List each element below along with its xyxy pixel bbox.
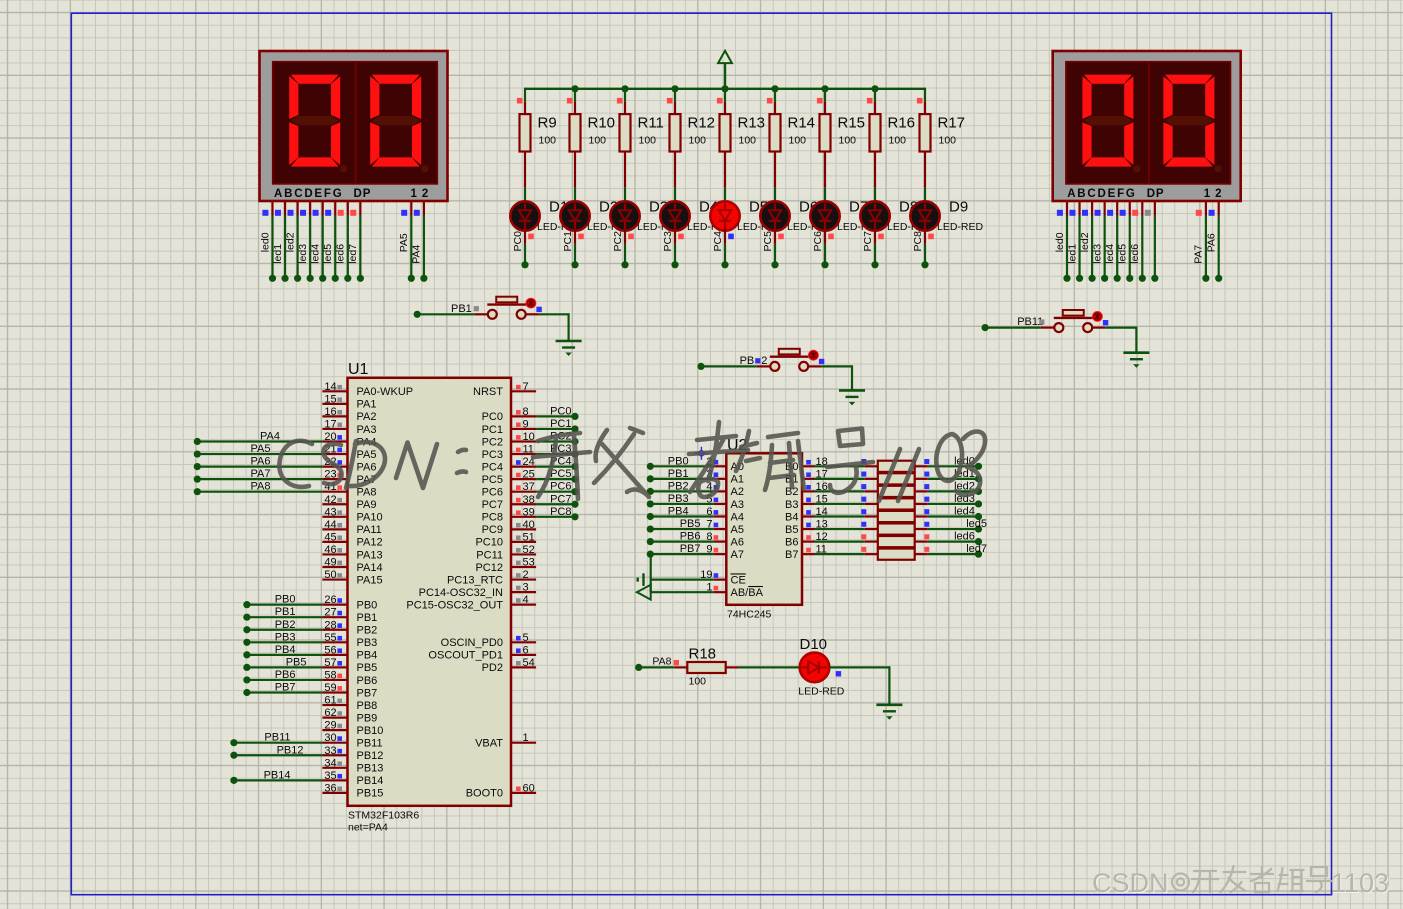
wire PC7 from U1 bbox=[536, 503, 575, 505]
ground (D10) bbox=[876, 703, 902, 706]
svg-text:27: 27 bbox=[324, 607, 336, 619]
wire R9 to D1 bbox=[524, 188, 526, 202]
U2 pin 16 (B2) bbox=[802, 490, 815, 492]
svg-text:PA8: PA8 bbox=[251, 481, 271, 493]
wire R15 to D7 bbox=[824, 188, 826, 202]
wire D5 to PC4 node bbox=[724, 229, 726, 244]
wire resistor pack to led1 bbox=[915, 478, 928, 480]
LED D5 (LED-RED) lit bbox=[710, 201, 739, 230]
wire R12 to D4 bbox=[674, 188, 676, 202]
junction PC1 bbox=[571, 425, 578, 432]
LED D1 (LED-RED) bbox=[510, 201, 539, 230]
U1 pin 35 (PB14) bbox=[322, 779, 347, 781]
watermark bottom right (CSDN @...) bbox=[1092, 866, 1389, 898]
svg-text:PC1: PC1 bbox=[550, 418, 571, 430]
ground (PB13 net left) bbox=[556, 340, 582, 343]
svg-text:led7: led7 bbox=[347, 244, 359, 264]
svg-text:D10: D10 bbox=[800, 636, 828, 653]
node PC1 bbox=[571, 261, 578, 268]
wire PB6 to U2 pin A6 bbox=[647, 538, 654, 545]
U2 pin 19 (CE) bbox=[714, 579, 727, 581]
MCU U1 STM32F103R6 bbox=[348, 378, 512, 806]
wire PA7 to U1 bbox=[194, 476, 201, 483]
svg-text:51: 51 bbox=[523, 531, 535, 543]
svg-text:53: 53 bbox=[523, 557, 535, 569]
LED D4 (LED-RED) bbox=[660, 201, 689, 230]
U1 pin 42 (PA9) bbox=[322, 503, 347, 505]
svg-text:PB10: PB10 bbox=[357, 725, 384, 737]
wire D7 to PC6 node bbox=[824, 229, 826, 244]
power arrow terminal (U2 AB/BA, pointing left) bbox=[637, 585, 651, 600]
svg-text:PC3: PC3 bbox=[662, 231, 674, 252]
svg-text:led6: led6 bbox=[954, 531, 975, 543]
svg-text:PC6: PC6 bbox=[550, 481, 571, 493]
svg-text:led0: led0 bbox=[1054, 232, 1066, 252]
LED D9 (LED-RED) bbox=[910, 201, 939, 230]
svg-text:PC4: PC4 bbox=[482, 461, 503, 473]
wire PB3 to U1 bbox=[243, 639, 250, 646]
svg-text:100: 100 bbox=[739, 135, 757, 147]
svg-text:1 2: 1 2 bbox=[1204, 188, 1223, 200]
svg-text:led6: led6 bbox=[335, 244, 347, 264]
U2 pin 6 (A4) bbox=[714, 515, 727, 517]
junction PC7 bbox=[571, 501, 578, 508]
svg-text:PA8: PA8 bbox=[357, 487, 377, 499]
svg-text:100: 100 bbox=[589, 135, 607, 147]
U1 pin 38 (PC7) bbox=[511, 503, 536, 505]
svg-text:R15: R15 bbox=[838, 114, 866, 131]
U1 pin 6 (OSCOUT_PD1) bbox=[511, 654, 536, 656]
resistor R9 (100) bbox=[524, 102, 526, 115]
svg-text:2: 2 bbox=[523, 569, 529, 581]
svg-text:60: 60 bbox=[523, 782, 535, 794]
node led5 bbox=[975, 525, 982, 532]
svg-text:PC6: PC6 bbox=[812, 231, 824, 252]
svg-text:36: 36 bbox=[324, 782, 336, 794]
svg-text:PC3: PC3 bbox=[482, 449, 503, 461]
svg-text:PA15: PA15 bbox=[357, 574, 383, 586]
U1 pin 22 (PA6) bbox=[322, 466, 347, 468]
U1 pin 5 (OSCIN_PD0) bbox=[511, 641, 536, 643]
svg-text:50: 50 bbox=[324, 569, 336, 581]
svg-text:PB12: PB12 bbox=[357, 750, 384, 762]
svg-text:28: 28 bbox=[324, 619, 336, 631]
U1 pin 11 (PC3) bbox=[511, 453, 536, 455]
wire resistor pack to led2 bbox=[915, 490, 928, 492]
U1 pin 45 (PA12) bbox=[322, 541, 347, 543]
U1 pin 9 (PC1) bbox=[511, 428, 536, 430]
svg-text:NRST: NRST bbox=[473, 386, 503, 398]
U1 pin 2 (PC13_RTC) bbox=[511, 578, 536, 580]
svg-text:PA10: PA10 bbox=[357, 512, 383, 524]
svg-text:R12: R12 bbox=[688, 114, 716, 131]
wire D1 to PC0 node bbox=[524, 229, 526, 244]
svg-text:4: 4 bbox=[523, 594, 529, 606]
junction VCC rail / R14 bbox=[771, 85, 778, 92]
wire R14 to D6 bbox=[774, 188, 776, 202]
node PC8 bbox=[921, 261, 928, 268]
svg-text:PC0: PC0 bbox=[512, 231, 524, 252]
svg-text:PC5: PC5 bbox=[550, 468, 571, 480]
U1 pin 40 (PC9) bbox=[511, 528, 536, 530]
svg-text:15: 15 bbox=[324, 393, 336, 405]
LED D2 (LED-RED) bbox=[560, 201, 589, 230]
wire led5 - right display pin 6 bbox=[1129, 202, 1131, 216]
svg-text:56: 56 bbox=[324, 644, 336, 656]
svg-text:PA5: PA5 bbox=[398, 233, 410, 252]
svg-text:DP: DP bbox=[354, 188, 372, 200]
wire PC0 from U1 bbox=[536, 415, 575, 417]
svg-text:DP: DP bbox=[1147, 188, 1165, 200]
U1 pin 27 (PB1) bbox=[322, 616, 347, 618]
wire PB11 to U1 bbox=[230, 739, 237, 746]
svg-text:led1: led1 bbox=[1066, 244, 1078, 264]
svg-text:led7: led7 bbox=[966, 543, 987, 555]
svg-text:PB5: PB5 bbox=[286, 656, 307, 668]
ground (U2 CE, rotated) bbox=[642, 573, 644, 586]
wire CE and AB/BA to ground bbox=[650, 554, 652, 592]
wire U2 pin B1 to resistor pack bbox=[815, 478, 865, 480]
svg-text:R17: R17 bbox=[938, 114, 966, 131]
resistor R10 (100) bbox=[574, 102, 576, 115]
wire D4 to PC3 node bbox=[674, 229, 676, 244]
svg-text:PA3: PA3 bbox=[357, 424, 377, 436]
wire led0 - left display pin A bbox=[271, 202, 273, 216]
wire PA8 to R18 bbox=[639, 666, 675, 668]
svg-text:R9: R9 bbox=[538, 114, 557, 131]
U2 pin 18 (B0) bbox=[802, 465, 815, 467]
svg-text:5: 5 bbox=[523, 632, 529, 644]
svg-text:7: 7 bbox=[523, 381, 529, 393]
U1 pin 52 (PC11) bbox=[511, 553, 536, 555]
svg-text:30: 30 bbox=[324, 732, 336, 744]
svg-text:100: 100 bbox=[889, 135, 907, 147]
svg-text:PC13_RTC: PC13_RTC bbox=[447, 574, 503, 586]
svg-text:PD2: PD2 bbox=[482, 662, 503, 674]
svg-text:R18: R18 bbox=[689, 646, 717, 663]
svg-text:PB0: PB0 bbox=[357, 599, 378, 611]
U1 pin 17 (PA3) bbox=[322, 428, 347, 430]
svg-text:PB1: PB1 bbox=[357, 612, 378, 624]
resistor R16 (100) bbox=[874, 102, 876, 115]
U1 pin 21 (PA5) bbox=[322, 453, 347, 455]
U1 pin 30 (PB11) bbox=[322, 742, 347, 744]
wire led4 - right display pin 5 bbox=[1116, 202, 1118, 216]
wire R17 to D9 bbox=[924, 188, 926, 202]
U1 pin 29 (PB10) bbox=[322, 729, 347, 731]
svg-text:1 2: 1 2 bbox=[411, 188, 430, 200]
svg-text:ABCDEFG: ABCDEFG bbox=[274, 188, 343, 200]
wire led3 - left display pin D bbox=[309, 202, 311, 216]
svg-text:PB3: PB3 bbox=[668, 493, 689, 505]
resistor R11 (100) bbox=[624, 102, 626, 115]
svg-text:PA6: PA6 bbox=[251, 456, 271, 468]
svg-text:PB: PB bbox=[740, 355, 755, 367]
7-segment dual display left (nets led0-led7 / PA5 PA4) bbox=[260, 51, 448, 201]
wire PC6 from U1 bbox=[536, 491, 575, 493]
origin marker (blue cross) bbox=[695, 447, 708, 460]
resistor pack element 3 bbox=[878, 486, 915, 497]
svg-text:led4: led4 bbox=[310, 244, 322, 264]
U1 pin 43 (PA10) bbox=[322, 516, 347, 518]
svg-text:35: 35 bbox=[324, 770, 336, 782]
U1 pin 44 (PA11) bbox=[322, 528, 347, 530]
svg-text:PC7: PC7 bbox=[482, 499, 503, 511]
node PC6 bbox=[821, 261, 828, 268]
svg-text:PC9: PC9 bbox=[482, 524, 503, 536]
svg-text:A2: A2 bbox=[731, 486, 744, 498]
svg-text:BOOT0: BOOT0 bbox=[466, 788, 503, 800]
svg-text:R13: R13 bbox=[738, 114, 766, 131]
wire PB7 to U2 pin A7 bbox=[647, 551, 654, 558]
U1 pin 10 (PC2) bbox=[511, 440, 536, 442]
svg-text:74HC245: 74HC245 bbox=[727, 609, 772, 621]
svg-text:43: 43 bbox=[324, 506, 336, 518]
wire D8 to PC7 node bbox=[874, 229, 876, 244]
wire D10 to ground bbox=[829, 666, 889, 668]
wire led4 - left display pin E bbox=[322, 202, 324, 216]
U1 pin 36 (PB15) bbox=[322, 792, 347, 794]
svg-text:23: 23 bbox=[324, 469, 336, 481]
svg-text:PB5: PB5 bbox=[357, 662, 378, 674]
U1 pin 25 (PC5) bbox=[511, 478, 536, 480]
svg-text:PB4: PB4 bbox=[357, 650, 378, 662]
resistor pack element 5 bbox=[878, 511, 915, 522]
svg-text:A3: A3 bbox=[731, 499, 744, 511]
svg-text:PC5: PC5 bbox=[482, 474, 503, 486]
svg-text:PC10: PC10 bbox=[475, 537, 503, 549]
svg-text:PC8: PC8 bbox=[482, 512, 503, 524]
U1 pin 61 (PB8) bbox=[322, 704, 347, 706]
node PC5 bbox=[771, 261, 778, 268]
svg-text:led5: led5 bbox=[1117, 244, 1129, 264]
junction VCC rail / R10 bbox=[571, 85, 578, 92]
U1 pin 33 (PB12) bbox=[322, 754, 347, 756]
svg-text:PB3: PB3 bbox=[275, 631, 296, 643]
svg-text:B3: B3 bbox=[785, 499, 798, 511]
junction PC3 bbox=[571, 450, 578, 457]
LED D3 (LED-RED) bbox=[610, 201, 639, 230]
svg-text:PB5: PB5 bbox=[680, 518, 701, 530]
wire resistor pack to led7 bbox=[915, 553, 928, 555]
node PC2 bbox=[621, 261, 628, 268]
svg-text:B6: B6 bbox=[785, 536, 798, 548]
wire R16 to D8 bbox=[874, 188, 876, 202]
U1 pin 37 (PC6) bbox=[511, 491, 536, 493]
svg-text:PA11: PA11 bbox=[357, 524, 382, 536]
svg-text:100: 100 bbox=[689, 676, 707, 688]
svg-text:17: 17 bbox=[324, 418, 336, 430]
wire U2 pin B2 to resistor pack bbox=[815, 490, 865, 492]
resistor pack element 7 bbox=[878, 536, 915, 547]
svg-text:PC4: PC4 bbox=[712, 231, 724, 252]
wire U2 pin B6 to resistor pack bbox=[815, 540, 865, 542]
wire led2 - left display pin C bbox=[297, 202, 299, 216]
svg-text:44: 44 bbox=[324, 519, 336, 531]
wire resistor pack to led3 bbox=[915, 503, 928, 505]
push button (PB14 net right) bbox=[982, 324, 989, 331]
svg-text:100: 100 bbox=[689, 135, 707, 147]
svg-text:2: 2 bbox=[761, 355, 767, 367]
wire PB4 to U1 bbox=[243, 651, 250, 658]
LED D7 (LED-RED) bbox=[810, 201, 839, 230]
svg-text:PB4: PB4 bbox=[275, 644, 296, 656]
7-segment dual display right (nets led0-led6 / PA7 PA6) bbox=[1053, 51, 1241, 201]
svg-text:39: 39 bbox=[523, 506, 535, 518]
svg-text:25: 25 bbox=[523, 469, 535, 481]
U2 pin 14 (B4) bbox=[802, 515, 815, 517]
svg-text:A4: A4 bbox=[731, 511, 744, 523]
U1 pin 34 (PB13) bbox=[322, 767, 347, 769]
svg-text:PC8: PC8 bbox=[550, 506, 571, 518]
wire D3 to PC2 node bbox=[624, 229, 626, 244]
resistor R12 (100) bbox=[674, 102, 676, 115]
svg-text:PA4: PA4 bbox=[411, 245, 423, 264]
svg-text:PC6: PC6 bbox=[482, 487, 503, 499]
resistor pack element 1 bbox=[878, 461, 915, 472]
node PC0 bbox=[521, 261, 528, 268]
svg-text:54: 54 bbox=[523, 657, 535, 669]
wire U2 pin B7 to resistor pack bbox=[815, 553, 865, 555]
U1 pin 1 (VBAT) bbox=[511, 742, 536, 744]
svg-text:PC14-OSC32_IN: PC14-OSC32_IN bbox=[419, 587, 503, 599]
U1 pin 53 (PC12) bbox=[511, 566, 536, 568]
svg-text:A5: A5 bbox=[731, 524, 744, 536]
svg-text:PC1: PC1 bbox=[482, 424, 503, 436]
resistor R17 (100) bbox=[924, 102, 926, 115]
U1 pin 39 (PC8) bbox=[511, 516, 536, 518]
svg-text:57: 57 bbox=[324, 657, 336, 669]
wire led6 - right display pin 7 bbox=[1141, 202, 1143, 216]
resistor R18 (100) bbox=[675, 666, 688, 668]
U2 pin 12 (B6) bbox=[802, 540, 815, 542]
svg-text:B5: B5 bbox=[785, 524, 798, 536]
junction VCC rail / R15 bbox=[821, 85, 828, 92]
svg-text:PB2: PB2 bbox=[668, 480, 689, 492]
U1 pin 16 (PA2) bbox=[322, 415, 347, 417]
svg-text:led6: led6 bbox=[1129, 244, 1141, 264]
svg-text:PB9: PB9 bbox=[357, 712, 378, 724]
wire D6 to PC5 node bbox=[774, 229, 776, 244]
svg-text:OSCIN_PD0: OSCIN_PD0 bbox=[441, 637, 503, 649]
svg-text:11: 11 bbox=[523, 444, 534, 456]
svg-text:PB12: PB12 bbox=[277, 744, 304, 756]
resistor R13 (100) bbox=[724, 102, 726, 115]
push button (PB13 net left) bbox=[414, 311, 421, 318]
svg-text:PC2: PC2 bbox=[612, 231, 624, 252]
svg-text:PA8: PA8 bbox=[652, 656, 671, 668]
node PC3 bbox=[671, 261, 678, 268]
svg-text:led1: led1 bbox=[272, 244, 284, 264]
resistor pack element 8 bbox=[878, 549, 915, 560]
svg-text:led3: led3 bbox=[1091, 244, 1103, 264]
svg-text:ABCDEFG: ABCDEFG bbox=[1067, 188, 1136, 200]
node PC7 bbox=[871, 261, 878, 268]
svg-text:PA2: PA2 bbox=[357, 411, 377, 423]
wire resistor pack to led4 bbox=[915, 515, 928, 517]
svg-text:PC2: PC2 bbox=[482, 436, 503, 448]
svg-text:PA6: PA6 bbox=[357, 461, 377, 473]
svg-text:led2: led2 bbox=[284, 232, 296, 252]
svg-text:26: 26 bbox=[324, 594, 336, 606]
wire PA4 - left display pin 2 bbox=[423, 202, 425, 216]
svg-text:PB0: PB0 bbox=[275, 594, 296, 606]
svg-text:PA12: PA12 bbox=[357, 537, 383, 549]
U1 pin 60 (BOOT0) bbox=[511, 792, 536, 794]
U1 pin 49 (PA14) bbox=[322, 566, 347, 568]
U1 pin 62 (PB9) bbox=[322, 716, 347, 718]
svg-text:PC1: PC1 bbox=[562, 231, 574, 252]
push button (PB12 net middle) bbox=[697, 363, 704, 370]
svg-text:49: 49 bbox=[324, 557, 336, 569]
svg-text:PB1: PB1 bbox=[668, 468, 689, 480]
svg-text:R14: R14 bbox=[788, 114, 816, 131]
wire PB5 to U1 bbox=[243, 664, 250, 671]
node led0 bbox=[975, 463, 982, 470]
svg-text:led2: led2 bbox=[1079, 232, 1091, 252]
junction VCC rail / R11 bbox=[621, 85, 628, 92]
wire PB14 net right button to ground bbox=[1105, 327, 1136, 329]
svg-text:PC12: PC12 bbox=[475, 562, 503, 574]
junction VCC rail / R16 bbox=[871, 85, 878, 92]
wire D2 to PC1 node bbox=[574, 229, 576, 244]
svg-text:PB6: PB6 bbox=[357, 675, 378, 687]
U1 pin 51 (PC10) bbox=[511, 541, 536, 543]
svg-text:9: 9 bbox=[523, 418, 529, 430]
svg-text:14: 14 bbox=[324, 381, 336, 393]
wire PB12 to U1 bbox=[230, 752, 237, 759]
buffer U2 74HC245 bbox=[726, 453, 802, 605]
svg-text:PC5: PC5 bbox=[762, 231, 774, 252]
svg-text:B4: B4 bbox=[785, 511, 798, 523]
wire led2 - right display pin 3 bbox=[1091, 202, 1093, 216]
resistor pack element 4 bbox=[878, 498, 915, 509]
LED D6 (LED-RED) bbox=[760, 201, 789, 230]
svg-text:1: 1 bbox=[523, 732, 529, 744]
U2 pin 13 (B5) bbox=[802, 528, 815, 530]
svg-text:OSCOUT_PD1: OSCOUT_PD1 bbox=[428, 650, 503, 662]
svg-text:PB14: PB14 bbox=[357, 775, 384, 787]
svg-text:CSDN: CSDN bbox=[1092, 868, 1169, 898]
wire PA5 to U1 bbox=[194, 450, 201, 457]
svg-text:PB4: PB4 bbox=[668, 506, 689, 518]
U1 pin 4 (PC15-OSC32_OUT) bbox=[511, 604, 536, 606]
wire D9 to PC8 node bbox=[924, 229, 926, 244]
wire PB14 to U1 bbox=[230, 777, 237, 784]
svg-text:100: 100 bbox=[939, 135, 957, 147]
svg-text:led4: led4 bbox=[1104, 244, 1116, 264]
wire led3 - right display pin 4 bbox=[1104, 202, 1106, 216]
U1 pin 23 (PA7) bbox=[322, 478, 347, 480]
wire PB12 net middle button to ground bbox=[821, 365, 852, 367]
svg-text:PC15-OSC32_OUT: PC15-OSC32_OUT bbox=[406, 599, 503, 611]
wire led7 - left display pin DP bbox=[359, 202, 361, 216]
U1 pin 55 (PB3) bbox=[322, 641, 347, 643]
U2 pin 3 (A1) bbox=[714, 478, 727, 480]
U2 pin 9 (A7) bbox=[714, 553, 727, 555]
node led2 bbox=[975, 488, 982, 495]
svg-text:PC7: PC7 bbox=[550, 493, 571, 505]
wire R13 to D5 bbox=[724, 188, 726, 202]
svg-text:10: 10 bbox=[523, 431, 535, 443]
wire PC1 from U1 bbox=[536, 428, 575, 430]
svg-text:46: 46 bbox=[324, 544, 336, 556]
U1 pin 58 (PB6) bbox=[322, 679, 347, 681]
wire resistor pack to led6 bbox=[915, 540, 928, 542]
svg-text:100: 100 bbox=[839, 135, 857, 147]
wire resistor pack to led5 bbox=[915, 528, 928, 530]
ground (PB14 net right) bbox=[1123, 351, 1149, 354]
